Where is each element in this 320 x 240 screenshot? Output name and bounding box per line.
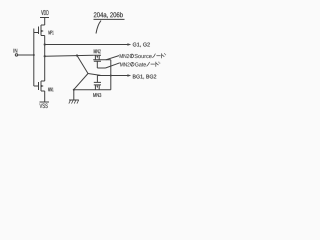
- reference numeral 204a 206b: [94, 12, 123, 18]
- wire MN1 source to VSS: [44, 91, 46, 102]
- arrowhead BG1,BG2: [127, 74, 131, 77]
- wire MN2 gate node: [97, 67, 105, 69]
- transistor MP1: [39, 25, 45, 36]
- transistor MN2: [94, 55, 101, 61]
- wire diagonal D1: [77, 56, 88, 74]
- kana no-do in source note: [152, 53, 166, 58]
- leader to MN2 source note: [106, 56, 119, 60]
- arrowhead G1,G2: [127, 43, 131, 46]
- VDD label: [41, 10, 48, 15]
- node IN on gate bus: [33, 54, 35, 56]
- node output upper junction: [44, 43, 46, 45]
- leader line from reference numeral: [96, 21, 101, 34]
- note MN2 source node: [120, 54, 152, 58]
- wire diagonal D2: [74, 74, 88, 90]
- leader to MN2 gate note: [106, 63, 120, 68]
- VSS rail: [40, 101, 50, 103]
- node BG1 BG2 label: [133, 75, 156, 80]
- wire inverter output column: [44, 36, 46, 82]
- node output lower junction: [44, 55, 46, 57]
- wire lower branch to MN2 drain: [45, 55, 94, 56]
- kana no in gate note: [131, 62, 135, 66]
- MN2 gate lead: [96, 61, 98, 68]
- MN3 gate lead: [96, 76, 98, 83]
- kana no-do in gate note: [147, 62, 161, 67]
- wire IN to gate bus: [18, 54, 34, 56]
- underline of reference numeral: [94, 18, 125, 20]
- transistor MN3: [94, 82, 101, 89]
- MN1 gate lead: [34, 85, 39, 87]
- wire BG line: [97, 75, 127, 77]
- MN1 label: [48, 88, 53, 92]
- VDD rail: [40, 17, 49, 19]
- node junction to diagonal D1: [76, 54, 78, 56]
- IN label: [14, 49, 18, 53]
- kana no in source note: [130, 54, 134, 58]
- ground: [69, 100, 79, 104]
- MN2 label: [94, 49, 101, 53]
- transistor MN1: [39, 81, 45, 91]
- note MN2 gate node: [120, 63, 146, 67]
- wire X junction connector: [88, 74, 101, 76]
- node BG junction: [110, 75, 112, 77]
- wire MN2 source down: [110, 60, 112, 90]
- wire gate bus: [33, 29, 35, 87]
- wire top branch to G1,G2: [45, 44, 128, 46]
- wire VDD to MP1 source: [44, 18, 46, 26]
- wire MN2 source-drain rail: [93, 59, 111, 61]
- wire MN3 source-drain rail: [74, 89, 111, 91]
- node G1 G2 label: [133, 43, 150, 48]
- VSS label: [40, 104, 48, 109]
- wire to ground: [73, 90, 75, 100]
- MN3 label: [93, 93, 101, 97]
- IN terminal circle: [15, 54, 17, 56]
- node MN3 left junction: [73, 89, 75, 91]
- MP1 label: [49, 31, 54, 35]
- MP1 gate lead: [34, 32, 39, 34]
